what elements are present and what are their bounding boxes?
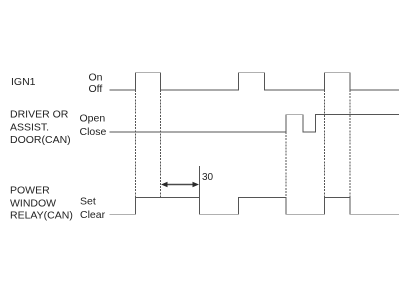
dimension arrow (30s delay) — [161, 182, 199, 187]
svg-text:WINDOW: WINDOW — [10, 198, 56, 210]
svg-text:30: 30 — [202, 172, 214, 183]
wire DOOR(CAN) open pulse top (light) — [286, 114, 303, 116]
label POWER WINDOW RELAY(CAN) — [10, 185, 73, 222]
svg-text:On: On — [89, 72, 103, 84]
dashed guide line at x=160.5 — [160, 90, 162, 198]
wire DOOR(CAN) waveform dark segments — [110, 115, 400, 133]
dashed guide line at x=324.5 — [324, 90, 326, 198]
svg-text:IGN1: IGN1 — [11, 76, 36, 88]
svg-text:Off: Off — [89, 83, 103, 95]
dashed guide line at x=286 — [285, 132, 287, 198]
dashed guide line at x=135.5 — [135, 90, 137, 198]
svg-text:Set: Set — [80, 196, 96, 208]
wire RELAY(CAN) clear baseline (light) — [110, 214, 400, 216]
svg-text:DRIVER OR: DRIVER OR — [10, 109, 69, 121]
wire IGN1 pulse tops (light) — [136, 72, 351, 74]
wire RELAY(CAN) waveform dark segments — [136, 198, 351, 215]
svg-text:DOOR(CAN): DOOR(CAN) — [10, 134, 71, 146]
label DRIVER OR ASSIST. DOOR(CAN) — [10, 109, 71, 146]
svg-text:RELAY(CAN): RELAY(CAN) — [10, 210, 73, 222]
dashed guide line at x=350 — [349, 90, 351, 198]
svg-text:POWER: POWER — [10, 185, 50, 197]
tick above relay falling edge at x=199.5 — [199, 166, 201, 198]
svg-text:Close: Close — [80, 126, 107, 138]
svg-text:Open: Open — [80, 113, 106, 125]
svg-text:ASSIST.: ASSIST. — [10, 122, 49, 134]
wire IGN1 waveform dark segments — [110, 73, 400, 91]
svg-text:Clear: Clear — [80, 209, 106, 221]
